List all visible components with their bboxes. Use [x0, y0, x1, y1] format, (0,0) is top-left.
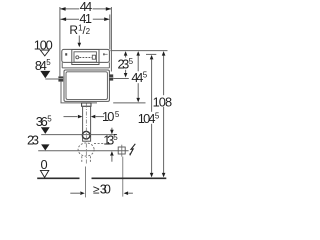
- electrical box vertical crosshair + extension to >=30: [121, 145, 123, 157]
- arrowhead >=30 left: [80, 191, 85, 195]
- arrowhead 104.5 down: [150, 173, 154, 178]
- svg-text:108: 108: [153, 94, 173, 109]
- arrowhead >=30 right: [124, 191, 129, 195]
- dim 13.5 tails: [111, 128, 113, 130]
- svg-text:5: 5: [129, 57, 134, 66]
- svg-text:44: 44: [131, 70, 143, 85]
- lightning bolt symbol: [130, 144, 135, 154]
- arrowhead 44.5 up: [136, 51, 140, 56]
- lid right tick dot: [103, 53, 104, 55]
- level marker 0 open triangle: [40, 170, 48, 177]
- access window inner frame: [74, 52, 96, 62]
- fitting stripe left: [58, 77, 63, 79]
- top reference line A (108): [110, 50, 167, 52]
- floor line level 0: [37, 177, 166, 179]
- arrowhead 41 left: [61, 17, 67, 21]
- level marker 100 open triangle: [40, 50, 49, 56]
- left supply fitting: [58, 76, 63, 81]
- arrowhead 44 right: [106, 7, 112, 11]
- level line 84.5 left: [45, 78, 58, 80]
- svg-text:36: 36: [36, 114, 48, 129]
- svg-text:23: 23: [118, 57, 130, 72]
- flush pipe collar: [82, 103, 91, 106]
- top reference line B (104.5): [146, 53, 156, 55]
- arrowhead 108 up: [162, 51, 166, 56]
- electrical box square: [118, 147, 125, 154]
- right supply fitting: [109, 74, 113, 80]
- arrowhead R1/2 down: [78, 43, 82, 48]
- arrowhead 44.5 down: [136, 98, 140, 103]
- arrowhead 23.5 down: [124, 73, 128, 78]
- >=30 dim tails: [70, 192, 80, 194]
- level marker 36.5 filled triangle: [41, 127, 50, 134]
- svg-text:30: 30: [100, 182, 111, 197]
- svg-text:5: 5: [115, 110, 120, 119]
- dashed WC outlet right: [94, 143, 104, 145]
- extension line right outer (44 dim): [110, 7, 112, 72]
- svg-text:84: 84: [35, 58, 47, 73]
- lid right tick line: [105, 53, 108, 55]
- svg-text:5: 5: [155, 111, 160, 120]
- dimension 41 line: [61, 18, 80, 20]
- flush bend circle: [82, 131, 90, 139]
- arrowhead 41 right: [104, 17, 110, 21]
- cistern lid rounded bar: [62, 49, 110, 62]
- level line 23: [38, 150, 128, 152]
- arrowhead 23.5 up: [124, 51, 128, 56]
- lid left tick dot: [65, 53, 67, 55]
- cistern head band left edge: [61, 62, 63, 68]
- svg-text:5: 5: [46, 58, 51, 67]
- cistern head band right edge: [108, 62, 110, 68]
- level marker 23 filled triangle: [41, 144, 49, 150]
- arrowhead 10.5 left: [78, 115, 83, 119]
- dim line 104.5 vertical: [151, 59, 153, 112]
- cistern head band bottom line: [62, 67, 109, 69]
- svg-text:23: 23: [27, 133, 39, 148]
- arrowhead 13.5 down: [110, 130, 114, 135]
- svg-text:100: 100: [34, 37, 53, 52]
- >=30 left extension line: [85, 167, 87, 198]
- dashed WC connection circle: [78, 143, 94, 156]
- R1/2 leader line: [78, 36, 80, 44]
- svg-text:5: 5: [113, 133, 118, 142]
- dashed WC stub right edge: [89, 156, 91, 163]
- dim line 108 vertical: [163, 55, 165, 95]
- extension line right inner (41 dim): [109, 15, 111, 50]
- centerline dash-dot: [85, 104, 87, 165]
- dim line 23.5 vertical: [125, 55, 127, 57]
- flush mechanism circlet: [76, 56, 79, 59]
- level marker 84.5 filled triangle: [40, 71, 50, 78]
- dim 10.5 tails: [64, 116, 78, 118]
- flush mechanism right bracket: [92, 55, 95, 59]
- svg-text:0: 0: [41, 157, 48, 172]
- arrowhead 104.5 up: [150, 55, 154, 60]
- tank outer outline: [64, 70, 109, 101]
- rail line right segment (44.5 ref): [113, 102, 145, 104]
- level line 84.5 right: [113, 78, 129, 80]
- svg-text:5: 5: [47, 114, 52, 123]
- extension line left (44/41 dims): [59, 7, 61, 76]
- arrowhead 10.5 right: [91, 115, 96, 119]
- dashed WC stub left edge: [81, 156, 83, 163]
- supply drop line: [61, 82, 97, 103]
- tank inner outline: [66, 72, 107, 100]
- dimension 44 line: [60, 8, 79, 10]
- svg-text:104: 104: [138, 111, 156, 126]
- access window outer frame: [72, 50, 99, 65]
- arrowhead 13.5 up: [110, 151, 114, 156]
- arrowhead 44 left: [60, 7, 66, 11]
- svg-text:10: 10: [102, 109, 114, 124]
- fitting stripe right: [109, 76, 113, 78]
- svg-text:5: 5: [143, 70, 148, 79]
- arrowhead 108 down: [162, 173, 166, 178]
- flush pipe: [83, 106, 91, 141]
- level line 36.5: [41, 134, 116, 136]
- flush mechanism dashed rod: [80, 57, 93, 59]
- dim line 44.5 vertical: [137, 55, 139, 71]
